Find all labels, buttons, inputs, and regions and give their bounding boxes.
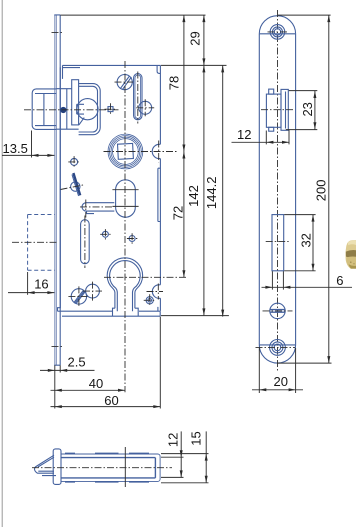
extension line case bottom right bbox=[161, 315, 229, 317]
deadbolt window tick bbox=[266, 241, 290, 243]
deadbolt guide slot (vertical stadium) bbox=[81, 220, 90, 264]
bottom screw tick bbox=[256, 346, 296, 348]
extension line top bbox=[60, 14, 205, 16]
ticks bbox=[127, 233, 137, 243]
dimension 23 bbox=[286, 91, 318, 130]
middle screw tick bbox=[263, 310, 293, 312]
svg-text:2.5: 2.5 bbox=[68, 355, 86, 370]
latch notch semicircle on case right edge bbox=[152, 144, 160, 158]
dimension 40 bbox=[51, 376, 126, 392]
dimension 16 bbox=[8, 272, 54, 295]
latch axis centerline bbox=[24, 109, 119, 111]
latch pivot pin (filled) bbox=[60, 107, 66, 113]
svg-text:15: 15 bbox=[188, 431, 203, 445]
dimension 72 bbox=[170, 152, 185, 278]
latch bolt body lines through plate bbox=[56, 89, 78, 130]
spindle square hole bbox=[118, 143, 134, 159]
dimension 12 bottom view bbox=[161, 431, 184, 477]
svg-text:6: 6 bbox=[336, 273, 343, 288]
dimension 29 bbox=[188, 15, 206, 65]
svg-text:29: 29 bbox=[188, 31, 203, 45]
faceplate outline bbox=[259, 16, 295, 363]
deadbolt axis centerline bbox=[12, 241, 58, 243]
svg-text:20: 20 bbox=[274, 374, 288, 389]
spring slot centerline bbox=[137, 72, 139, 124]
middle screw with slot bbox=[270, 303, 285, 318]
spring slot (vertical stadium) bbox=[134, 74, 142, 120]
small square post bbox=[108, 107, 113, 112]
ticks bbox=[100, 229, 110, 239]
deadbolt guide slot centerline bbox=[84, 216, 86, 269]
svg-text:12: 12 bbox=[237, 127, 251, 142]
spindle horizontal centerline bbox=[104, 151, 179, 153]
latch cam frame inner line bbox=[79, 86, 98, 132]
dimension 15 bottom view bbox=[161, 431, 209, 483]
dimension 144.2 bbox=[204, 65, 224, 316]
dimension 200 bbox=[313, 15, 330, 363]
keyhole bbox=[107, 258, 142, 316]
bottom view horizontal centerline bbox=[32, 467, 172, 469]
svg-text:13.5: 13.5 bbox=[3, 141, 28, 156]
faceplate bar section bbox=[53, 449, 61, 485]
faceplate edge-view screw ticks bbox=[52, 32, 64, 346]
svg-text:32: 32 bbox=[298, 233, 313, 247]
latch cam frame bbox=[79, 84, 101, 135]
dimension 2.5 bbox=[40, 355, 95, 409]
deadbolt retracted (dashed) bbox=[28, 215, 55, 271]
svg-text:78: 78 bbox=[167, 76, 182, 90]
page border line left bbox=[1, 0, 3, 527]
hub arc-center ticks bbox=[112, 190, 138, 207]
svg-text:16: 16 bbox=[34, 277, 48, 292]
lock screw A with slot bbox=[71, 289, 86, 304]
svg-text:72: 72 bbox=[170, 206, 185, 220]
svg-text:200: 200 bbox=[313, 180, 328, 202]
svg-text:142: 142 bbox=[186, 185, 201, 207]
crank tick bbox=[61, 185, 85, 190]
hole B bbox=[86, 284, 100, 298]
locating circle ticks bbox=[68, 156, 80, 168]
deadbolt notch centerlines bbox=[147, 284, 164, 300]
deadbolt notch semicircle on case right edge bbox=[152, 285, 160, 299]
dimension 13.5 bbox=[2, 131, 54, 158]
dimension 60 bbox=[51, 317, 161, 409]
svg-text:40: 40 bbox=[89, 376, 103, 391]
svg-text:12: 12 bbox=[166, 433, 181, 447]
faceplate vertical centerline bbox=[276, 10, 278, 372]
bottom view vertical centerline bbox=[124, 447, 126, 487]
deadbolt hub (vertical stadium) bbox=[116, 180, 136, 217]
svg-text:23: 23 bbox=[300, 102, 315, 116]
case plan outline bbox=[61, 454, 160, 481]
extension line case top right bbox=[161, 64, 227, 66]
dimension 6 bbox=[262, 271, 353, 289]
latch cam keyhole cutout bbox=[77, 99, 98, 125]
small square post ticks bbox=[105, 103, 117, 115]
dimension 12 faceplate bbox=[232, 127, 290, 144]
deadbolt tail slot (horizontal stadium) bbox=[82, 203, 114, 214]
deadbolt tail slot centerline bbox=[80, 200, 112, 218]
svg-text:144.2: 144.2 bbox=[204, 177, 219, 210]
latch bolt head bbox=[32, 89, 56, 129]
cover tabs top bbox=[65, 452, 149, 454]
latch notch centerlines bbox=[158, 141, 160, 163]
small locating circle right bbox=[129, 236, 135, 242]
bottom screw hole bbox=[270, 340, 286, 356]
spindle follower rings bbox=[108, 134, 143, 169]
dimension 142 bbox=[186, 65, 205, 315]
screw A ticks bbox=[68, 286, 89, 306]
keyhole horizontal centerline bbox=[104, 276, 186, 278]
latch window bbox=[266, 89, 288, 131]
extension top right bbox=[278, 14, 331, 16]
brass knob photo fragment bbox=[346, 240, 356, 269]
dimension 32 bbox=[284, 215, 315, 271]
guide circle ticks bbox=[136, 99, 154, 116]
deadbolt window bbox=[272, 215, 284, 271]
ticks bbox=[144, 294, 156, 306]
case screw C1 with slot bbox=[117, 75, 132, 90]
cover tabs bottom bbox=[65, 481, 149, 483]
dimension 20 bbox=[252, 348, 303, 393]
dimension 78 bbox=[167, 15, 186, 151]
svg-text:60: 60 bbox=[104, 393, 118, 408]
guide circle right of spindle bbox=[139, 101, 152, 114]
small locating circle left bbox=[102, 231, 108, 237]
main vertical centerline bbox=[124, 61, 126, 392]
small hole bottom right bbox=[146, 297, 153, 304]
extension bottom 200 bbox=[278, 362, 332, 364]
latch axis tick on faceplate bbox=[261, 109, 294, 111]
latch bolt tip plan bbox=[34, 455, 56, 475]
spring crank lever bbox=[71, 173, 81, 196]
hole B ticks bbox=[83, 282, 102, 301]
screw C1 tick bbox=[115, 81, 135, 83]
small locating circle upper bbox=[71, 158, 78, 165]
latch tail guide box bbox=[72, 80, 79, 125]
faceplate edge view bbox=[54, 15, 60, 365]
top screw tick bbox=[268, 31, 288, 33]
top screw hole bbox=[270, 25, 285, 40]
lock case outline bbox=[58, 65, 161, 316]
